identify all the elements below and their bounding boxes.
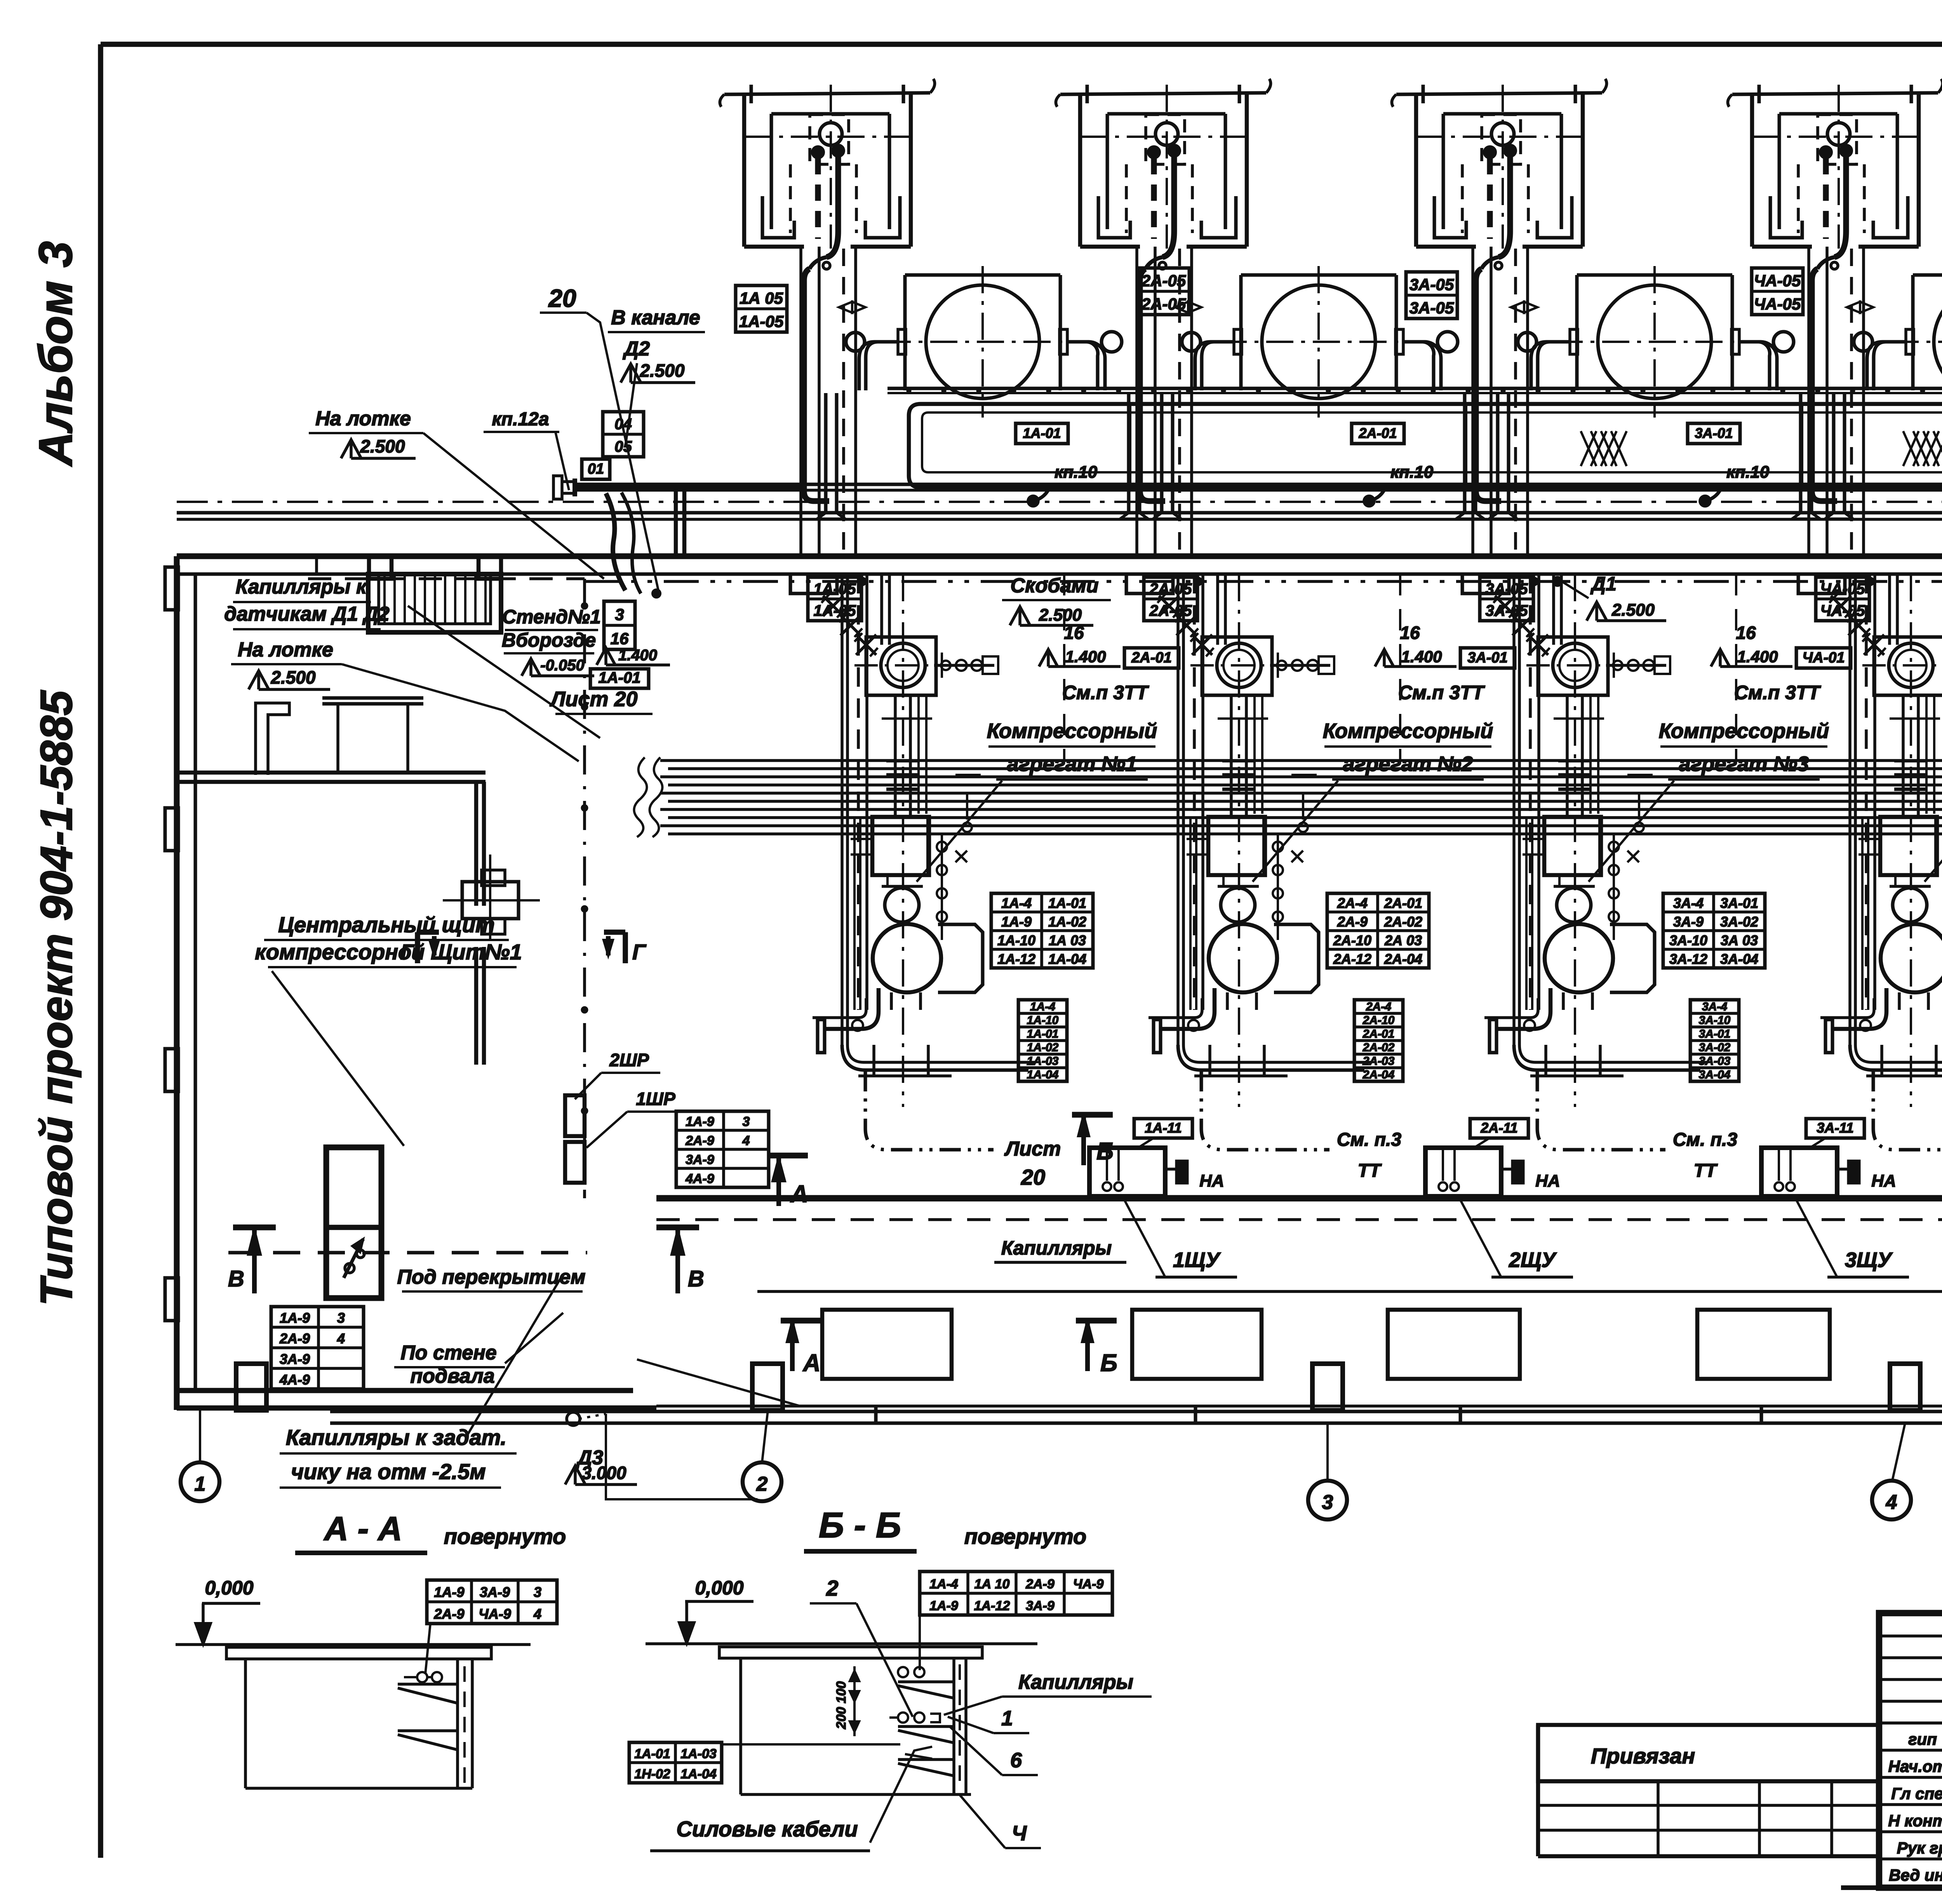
- Б-Б channel: [952, 1658, 955, 1794]
- svg-text:2.500: 2.500: [1039, 606, 1082, 625]
- axis circle 4: [1872, 1481, 1911, 1519]
- unit 4 junction dot: [1867, 578, 1874, 585]
- svg-text:3ЩУ: 3ЩУ: [1845, 1248, 1893, 1272]
- unit 1 extra pipes: [917, 695, 920, 814]
- unit 1 suction elbow: [824, 988, 879, 1029]
- svg-text:2А-12: 2А-12: [1333, 951, 1371, 967]
- svg-text:1.400: 1.400: [1401, 647, 1442, 666]
- А-А capillary circles: [417, 1672, 427, 1682]
- cable dash horizontal top: [308, 577, 585, 580]
- svg-text:4А-9: 4А-9: [279, 1371, 310, 1387]
- risers below tower 1: [799, 247, 802, 556]
- svg-text:В: В: [228, 1266, 244, 1291]
- receiver tank 3 circle: [1598, 285, 1711, 399]
- svg-text:16: 16: [1400, 623, 1420, 643]
- capillary drop 2: [1140, 269, 1165, 501]
- unit 3 left pipe elbow bottom: [1514, 1045, 1700, 1070]
- unit 2 label box А-11: [1470, 1119, 1528, 1138]
- unit 2 ЩУ box: [1425, 1148, 1501, 1196]
- unit 4 mid circle: [1893, 888, 1927, 922]
- svg-text:16: 16: [1064, 623, 1084, 643]
- svg-text:3А-05: 3А-05: [1410, 275, 1454, 294]
- fan circle 1: [820, 123, 842, 145]
- receiver tank 4 frame: [1913, 273, 1942, 277]
- svg-text:2А-05: 2А-05: [1141, 272, 1186, 290]
- svg-text:1А-4: 1А-4: [1030, 1000, 1055, 1013]
- svg-text:В: В: [688, 1266, 704, 1291]
- unit 1 mid circle: [885, 888, 919, 922]
- unit 2 extra pipes: [1253, 695, 1256, 814]
- unit 3 valve crosses: [1495, 596, 1515, 616]
- unit 3 fittings column right: [1613, 835, 1615, 940]
- unit 2 big circle: [1209, 924, 1277, 992]
- valve at tower 3: [1511, 302, 1537, 313]
- svg-text:НА: НА: [1199, 1171, 1224, 1190]
- unit 3 small fittings right: [1606, 664, 1666, 667]
- title block main frame: [1879, 1613, 1942, 1888]
- svg-text:3А-4: 3А-4: [1673, 895, 1704, 911]
- unit 3 shaft: [1566, 695, 1569, 817]
- svg-text:2.500: 2.500: [360, 436, 405, 456]
- unit 3 top label boxes: [1480, 577, 1533, 621]
- label box А-01 above hall 3: [1688, 423, 1740, 444]
- Б-Б top table: [920, 1572, 1112, 1615]
- bundle left break: [650, 757, 663, 837]
- svg-text:См. п.3: См. п.3: [1673, 1130, 1738, 1150]
- Б-Б ground line: [646, 1642, 1037, 1645]
- svg-text:Нач.отд: Нач.отд: [1888, 1757, 1942, 1775]
- fan circle 3: [1491, 123, 1514, 145]
- svg-text:1А-01: 1А-01: [1048, 895, 1086, 911]
- svg-text:2А-10: 2А-10: [1363, 1014, 1395, 1027]
- unit 4 extra pipes: [1925, 695, 1928, 814]
- unit 4 left pipe elbow bottom: [1850, 1045, 1942, 1070]
- svg-text:2.500: 2.500: [270, 667, 316, 687]
- svg-text:01: 01: [588, 461, 604, 477]
- svg-text:2.500: 2.500: [639, 360, 685, 381]
- svg-text:16: 16: [1736, 623, 1756, 643]
- section flag Г right: [623, 932, 628, 963]
- svg-text:повернуто: повернуто: [444, 1524, 566, 1549]
- unit 3 ЩУ box: [1761, 1148, 1837, 1196]
- cooling tower 3 brackets: [1434, 196, 1466, 238]
- svg-text:2А-02: 2А-02: [1384, 914, 1422, 929]
- svg-text:3А 03: 3А 03: [1721, 932, 1758, 948]
- А-А footing: [244, 1659, 247, 1788]
- panel 2ШР 1ШР boxes: [565, 1095, 585, 1136]
- svg-text:3.000: 3.000: [581, 1463, 626, 1483]
- svg-text:-0.050: -0.050: [540, 657, 584, 674]
- svg-text:2А-03: 2А-03: [1363, 1055, 1395, 1067]
- svg-text:2: 2: [826, 1576, 838, 1600]
- svg-text:1А-03: 1А-03: [680, 1747, 717, 1761]
- svg-text:1А-01: 1А-01: [1023, 425, 1061, 441]
- unit 4 valve crosses: [1831, 596, 1851, 616]
- unit 1 table B: [1018, 1000, 1067, 1081]
- small box 01: [582, 459, 610, 479]
- unit 3 base lines: [1530, 1074, 1624, 1077]
- svg-text:3А-9: 3А-9: [686, 1152, 714, 1167]
- svg-text:Центральный щит: Центральный щит: [278, 912, 494, 937]
- unit 2 shaft: [1230, 695, 1233, 817]
- svg-text:2А-01: 2А-01: [1384, 895, 1422, 911]
- table furniture 2: [322, 696, 423, 700]
- room wall vertical: [474, 782, 479, 906]
- svg-text:повернуто: повернуто: [964, 1524, 1086, 1549]
- svg-text:3А-11: 3А-11: [1817, 1120, 1853, 1136]
- svg-text:НА: НА: [1535, 1171, 1560, 1190]
- svg-text:Рук гр: Рук гр: [1897, 1839, 1942, 1857]
- svg-text:20: 20: [548, 284, 576, 312]
- svg-text:1А-9: 1А-9: [280, 1310, 310, 1326]
- svg-text:3: 3: [337, 1310, 345, 1326]
- svg-text:Лист 20: Лист 20: [549, 687, 637, 711]
- section flag А upper: [767, 1153, 808, 1159]
- svg-text:1А 10: 1А 10: [974, 1577, 1010, 1592]
- unit 1 small fittings right: [934, 664, 994, 667]
- svg-text:1А-9: 1А-9: [434, 1584, 464, 1600]
- svg-text:Г: Г: [632, 940, 647, 964]
- axis circle 3: [1308, 1481, 1347, 1519]
- dashed line под перекрытием: [228, 1251, 587, 1255]
- unit 3 cylinder block: [1544, 817, 1601, 875]
- risers below tower 3: [1471, 247, 1474, 556]
- svg-text:Силовые кабели: Силовые кабели: [676, 1817, 858, 1841]
- svg-text:1.400: 1.400: [1737, 647, 1778, 666]
- capillary cables 4: [1823, 158, 1829, 239]
- unit 4 cylinder block: [1880, 817, 1937, 875]
- svg-text:Компрессорный: Компрессорный: [987, 719, 1157, 743]
- sensor Д3: [567, 1412, 580, 1425]
- svg-text:3А-9: 3А-9: [480, 1584, 510, 1600]
- svg-text:1: 1: [1001, 1707, 1013, 1730]
- svg-text:2А-01: 2А-01: [1131, 649, 1172, 666]
- corridor window rects: [822, 1310, 952, 1379]
- svg-text:4: 4: [1886, 1491, 1897, 1514]
- capillary drop 1: [804, 269, 829, 501]
- unit 4 big circle: [1881, 924, 1942, 992]
- cooling tower 2 inner dashed: [1146, 115, 1185, 164]
- А-А channel: [456, 1659, 459, 1788]
- svg-text:Капилляры к: Капилляры к: [236, 576, 367, 598]
- section flag В right: [675, 1227, 680, 1293]
- А-А shelf 1: [398, 1683, 458, 1686]
- svg-text:2ЩУ: 2ЩУ: [1509, 1248, 1557, 1272]
- cooling tower 2 box: [1078, 94, 1082, 247]
- unit 2 table A: [1327, 893, 1429, 968]
- label box 3А-05 pair: [1406, 272, 1457, 318]
- section flag В left: [252, 1227, 257, 1293]
- svg-text:3А-01: 3А-01: [1695, 425, 1733, 441]
- svg-text:3А-02: 3А-02: [1720, 914, 1758, 929]
- Б-Б shelf 1: [898, 1713, 908, 1723]
- svg-text:2А-02: 2А-02: [1363, 1041, 1395, 1054]
- stairwell: [368, 574, 501, 632]
- cooling tower 4 roof line: [1732, 93, 1938, 94]
- svg-text:2А-4: 2А-4: [1366, 1000, 1391, 1013]
- unit 3 compressor top circle: [1538, 637, 1608, 695]
- capillary cables 1: [815, 158, 821, 239]
- receiver tank 2 circle: [1262, 285, 1375, 399]
- unit 2 table B: [1354, 1000, 1403, 1081]
- svg-text:2А-9: 2А-9: [1337, 914, 1368, 929]
- svg-text:1: 1: [195, 1473, 206, 1495]
- svg-text:3А-02: 3А-02: [1699, 1041, 1731, 1054]
- section flag Б upper: [1072, 1112, 1113, 1118]
- svg-text:А - А: А - А: [324, 1510, 402, 1547]
- svg-text:Компрессорный: Компрессорный: [1659, 719, 1829, 743]
- Б-Б footing: [739, 1658, 742, 1794]
- svg-text:2А-04: 2А-04: [1363, 1068, 1395, 1081]
- unit 2 compressor top circle: [1202, 637, 1272, 695]
- border frame: [101, 42, 1942, 47]
- svg-text:ЧА-9: ЧА-9: [1073, 1577, 1104, 1592]
- svg-text:2А-4: 2А-4: [1337, 895, 1368, 911]
- svg-text:Типовой проект 904-1-5885: Типовой проект 904-1-5885: [31, 690, 82, 1306]
- unit 4 shaft: [1902, 695, 1905, 817]
- svg-text:См.п 3ТТ: См.п 3ТТ: [1734, 682, 1822, 703]
- receiver tank 3 frame: [1577, 273, 1732, 277]
- svg-text:НА: НА: [1871, 1171, 1896, 1190]
- svg-text:1ШР: 1ШР: [636, 1089, 675, 1109]
- elev 1400: [597, 648, 615, 665]
- svg-text:ЧА-05: ЧА-05: [1754, 272, 1801, 290]
- unit 2 left pipe elbow bottom: [1178, 1045, 1364, 1070]
- svg-text:А: А: [802, 1350, 821, 1377]
- svg-text:Капилляры к задат.: Капилляры к задат.: [286, 1425, 506, 1450]
- svg-text:1.400: 1.400: [618, 647, 657, 664]
- svg-text:4А-9: 4А-9: [685, 1171, 714, 1186]
- svg-text:1А-9: 1А-9: [1001, 914, 1032, 929]
- section flag Г left: [415, 932, 420, 963]
- svg-text:16: 16: [611, 629, 629, 647]
- fan circle 2: [1155, 123, 1178, 145]
- unit 4 suction elbow: [1832, 988, 1886, 1029]
- unit 4 base lines: [1866, 1074, 1942, 1077]
- svg-text:3А-04: 3А-04: [1720, 951, 1758, 967]
- unit 1 fittings column right: [941, 835, 943, 940]
- svg-text:чику на отм -2.5м: чику на отм -2.5м: [291, 1459, 486, 1484]
- pipe bundle across hall: [660, 759, 1942, 762]
- unit 3 table A: [1663, 893, 1765, 968]
- fan circle 4: [1827, 123, 1850, 145]
- svg-text:1А-05: 1А-05: [739, 312, 784, 331]
- svg-text:Д1: Д1: [1590, 573, 1617, 595]
- cooling tower 1 box: [742, 94, 747, 247]
- valve at tower 1: [839, 302, 865, 313]
- unit 4 top label boxes: [1816, 577, 1869, 621]
- svg-text:3А-01: 3А-01: [1467, 649, 1508, 666]
- svg-text:2А-05: 2А-05: [1149, 581, 1192, 598]
- table 1А-9 left: [271, 1307, 364, 1389]
- svg-text:Вед инж: Вед инж: [1889, 1866, 1942, 1884]
- svg-text:гип: гип: [1908, 1730, 1937, 1748]
- cooling tower 3 roof line: [1396, 93, 1602, 94]
- svg-text:3А-4: 3А-4: [1702, 1000, 1727, 1013]
- svg-text:1А-9: 1А-9: [929, 1599, 958, 1613]
- svg-text:агрегат №2: агрегат №2: [1343, 752, 1473, 776]
- svg-text:2А 03: 2А 03: [1384, 932, 1422, 948]
- svg-text:1А-10: 1А-10: [997, 932, 1035, 948]
- svg-text:1А-12: 1А-12: [997, 951, 1035, 967]
- svg-text:05: 05: [614, 438, 632, 455]
- svg-text:4: 4: [337, 1330, 345, 1346]
- small box 04 05: [603, 412, 644, 457]
- Б-Б slab: [719, 1647, 982, 1658]
- svg-text:По стене: По стене: [400, 1342, 496, 1364]
- corridor line: [757, 1290, 1942, 1293]
- rack line under tanks: [887, 387, 1942, 390]
- svg-text:2А-05: 2А-05: [1149, 602, 1192, 620]
- capillary bulbs 3: [1484, 146, 1496, 158]
- Б-Б shelf 2: [898, 1758, 954, 1761]
- compressor unit 3 risers: [1512, 574, 1516, 1045]
- unit 3 junction dot: [1531, 578, 1538, 585]
- svg-text:3: 3: [534, 1584, 541, 1600]
- svg-text:4: 4: [533, 1606, 541, 1622]
- svg-text:Скобами: Скобами: [1010, 574, 1098, 597]
- svg-text:ЧА-05: ЧА-05: [1820, 581, 1865, 598]
- receiver tank 2 frame: [1241, 273, 1396, 277]
- svg-text:1А-05: 1А-05: [814, 581, 856, 598]
- svg-text:Стенд№1: Стенд№1: [502, 606, 601, 628]
- unit 1 compressor top circle: [866, 637, 936, 695]
- svg-text:Капилляры: Капилляры: [1018, 1671, 1133, 1693]
- cooling tower 3 inner dashed: [1482, 115, 1521, 164]
- unit 3 table B: [1690, 1000, 1739, 1081]
- svg-text:1А-02: 1А-02: [1048, 914, 1086, 929]
- capillary bulbs 4: [1820, 146, 1832, 158]
- svg-text:3А-01: 3А-01: [1699, 1027, 1731, 1040]
- unit 3 label box А-11: [1806, 1119, 1864, 1138]
- svg-text:В канале: В канале: [611, 306, 700, 329]
- svg-text:1А-04: 1А-04: [1048, 951, 1086, 967]
- svg-text:агрегат №3: агрегат №3: [1679, 752, 1809, 776]
- svg-text:Д2: Д2: [623, 338, 650, 360]
- box 3 16: [604, 601, 635, 649]
- Б-Б bottom table: [629, 1742, 722, 1783]
- hall mid vertical guides: [1063, 574, 1065, 761]
- svg-text:1А-4: 1А-4: [929, 1577, 958, 1592]
- svg-text:0,000: 0,000: [695, 1577, 743, 1599]
- svg-text:1А-02: 1А-02: [1027, 1041, 1059, 1054]
- capillary drop 3: [1476, 269, 1501, 501]
- svg-text:3: 3: [615, 605, 624, 623]
- svg-text:1А-4: 1А-4: [1001, 895, 1032, 911]
- svg-text:2А-05: 2А-05: [1141, 295, 1186, 313]
- tank 2 nozzles: [1234, 329, 1242, 354]
- valve at tower 2: [1175, 302, 1201, 313]
- svg-text:Б - Б: Б - Б: [819, 1505, 901, 1545]
- unit 1 left pipe elbow bottom: [842, 1045, 1028, 1070]
- svg-text:Вборозде: Вборозде: [502, 629, 596, 651]
- axis circle 1: [181, 1462, 219, 1501]
- unit 2 suction elbow: [1160, 988, 1215, 1029]
- cooling tower 1 brackets: [762, 196, 794, 238]
- label box А-01 above hall 1: [1016, 423, 1068, 444]
- svg-text:2А-10: 2А-10: [1333, 932, 1371, 948]
- unit 3 extra pipes: [1589, 695, 1592, 814]
- risers below tower 4: [1807, 247, 1810, 556]
- receiver tank 1 frame: [905, 273, 1060, 277]
- unit 1 valve crosses: [823, 596, 843, 616]
- svg-text:2А-04: 2А-04: [1384, 951, 1422, 967]
- А-А ground line: [176, 1643, 531, 1646]
- svg-text:2А-9: 2А-9: [279, 1330, 310, 1346]
- section flag Б lower: [1076, 1318, 1117, 1324]
- svg-text:1А-9: 1А-9: [686, 1114, 714, 1129]
- svg-text:А: А: [790, 1181, 808, 1208]
- svg-text:2А-9: 2А-9: [433, 1606, 464, 1622]
- crosshatch marks in trough: [1581, 431, 1596, 466]
- hall left outer wall: [174, 556, 180, 1410]
- cable dashdot vertical: [583, 579, 586, 1198]
- svg-text:Б: Б: [1096, 1138, 1114, 1165]
- bottom long band: [330, 1410, 1942, 1413]
- compressor unit 1 risers: [840, 574, 844, 1045]
- svg-text:2.500: 2.500: [1611, 600, 1655, 620]
- unit 1 top label boxes: [808, 577, 861, 621]
- unit 4 capillary drop to ЩУ: [1873, 1070, 1942, 1150]
- svg-text:3А-12: 3А-12: [1669, 951, 1707, 967]
- svg-text:2: 2: [756, 1473, 768, 1495]
- tank 3 nozzles: [1570, 329, 1578, 354]
- unit axis centerlines: [902, 574, 904, 1107]
- cooling tower 4 inner dashed: [1818, 115, 1857, 164]
- tank support legs: [824, 393, 828, 513]
- svg-text:3А-03: 3А-03: [1699, 1055, 1731, 1067]
- unit 2 mid circle: [1221, 888, 1255, 922]
- unit 3 mid circle: [1557, 888, 1591, 922]
- equipment cross box: [462, 882, 519, 919]
- unit 2 fittings column right: [1277, 835, 1279, 940]
- svg-text:3А-05: 3А-05: [1486, 581, 1528, 598]
- cooling tower 3 box: [1414, 94, 1418, 247]
- svg-text:Ч: Ч: [1012, 1822, 1027, 1845]
- unit 2 base lines: [1194, 1074, 1288, 1077]
- svg-text:Н контр: Н контр: [1888, 1812, 1942, 1830]
- upper table 1А-9: [676, 1111, 769, 1187]
- unit 1 cylinder block: [872, 817, 929, 875]
- svg-text:04: 04: [614, 416, 632, 433]
- left pipe header: [573, 479, 577, 496]
- svg-text:Лист: Лист: [1004, 1138, 1061, 1160]
- А-А shelf 2: [398, 1729, 458, 1732]
- unit 2 small fittings right: [1270, 664, 1330, 667]
- svg-text:200 100: 200 100: [834, 1681, 849, 1729]
- svg-text:Г: Г: [400, 940, 415, 964]
- unit 1 ЩУ box: [1089, 1148, 1165, 1196]
- svg-text:Гл спец: Гл спец: [1891, 1784, 1942, 1803]
- unit 2 valve crosses: [1159, 596, 1179, 616]
- unit 3 capillary drop to ЩУ: [1537, 1070, 1665, 1150]
- svg-text:1А-04: 1А-04: [1027, 1068, 1059, 1081]
- svg-text:На лотке: На лотке: [238, 639, 333, 661]
- unit 2 capillary drop to ЩУ: [1201, 1070, 1329, 1150]
- svg-text:3А-10: 3А-10: [1699, 1014, 1731, 1027]
- svg-text:См.п 3ТТ: См.п 3ТТ: [1062, 682, 1150, 703]
- svg-text:Привязан: Привязан: [1591, 1744, 1695, 1768]
- cooling tower 4 box: [1750, 94, 1754, 247]
- svg-text:ЧА-05: ЧА-05: [1754, 295, 1801, 313]
- А-А table: [427, 1580, 557, 1624]
- cooling tower 1 inner dashed: [810, 115, 849, 164]
- unit 1 table A: [991, 893, 1093, 968]
- svg-text:1А-05: 1А-05: [814, 602, 856, 620]
- tank 4 nozzles: [1906, 329, 1914, 354]
- cooling tower 2 brackets: [1098, 196, 1130, 238]
- svg-text:1А-10: 1А-10: [1027, 1014, 1059, 1027]
